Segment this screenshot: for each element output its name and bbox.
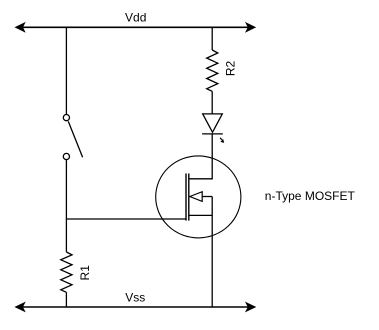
wire (MOSFET source/body to Vss rail) <box>211 197 213 308</box>
svg-text:n-Type MOSFET: n-Type MOSFET <box>265 189 356 203</box>
power rail Vss <box>16 303 256 312</box>
svg-text:R2: R2 <box>223 61 237 77</box>
svg-text:R1: R1 <box>78 265 92 281</box>
wire (Vdd rail to R2) <box>211 27 213 50</box>
resistor R1 <box>61 252 72 292</box>
wire (R1 to Vss rail) <box>65 292 67 307</box>
wire (diode to MOSFET drain) <box>189 134 212 179</box>
wire (gate: node to MOSFET gate) <box>66 218 186 220</box>
wire (switch to R1, through gate node) <box>65 160 67 252</box>
diode D1 (LED) <box>202 114 224 142</box>
svg-text:Vdd: Vdd <box>125 10 146 24</box>
resistor R2 <box>207 50 218 91</box>
svg-text:Vss: Vss <box>125 290 145 304</box>
wire (Vdd rail to switch) <box>65 27 67 114</box>
switch S1 <box>63 115 82 160</box>
n-channel MOSFET Q1 <box>156 156 241 238</box>
power rail Vdd <box>16 23 256 32</box>
wire (R2 to diode) <box>211 91 213 114</box>
